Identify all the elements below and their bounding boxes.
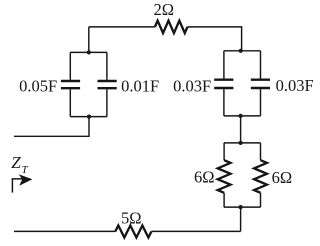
wire: 6Ω bank top rail — [224, 142, 261, 144]
resistor 2Ω (top, horizontal zigzag) — [155, 21, 188, 33]
wire: left capacitor bank top node up to top rail — [88, 27, 90, 53]
resistor R1 6Ω (left, vertical zigzag) — [218, 143, 231, 207]
wire: bottom rail right segment — [151, 230, 240, 232]
wire: left capacitor bank bottom rail — [70, 116, 107, 118]
svg-text:6Ω: 6Ω — [194, 168, 215, 187]
wire: 6Ω bank bottom rail — [224, 206, 261, 208]
impedance arrow for Z_T — [12, 179, 23, 193]
capacitor C2 0.01F (left bank, right branch) — [98, 52, 117, 116]
wire: right capacitor bank top rail — [224, 50, 261, 52]
wire: top rail right segment down to right capacitor bank — [188, 27, 242, 51]
junction node: 6Ω bank bottom — [239, 205, 243, 209]
junction node: 6Ω bank top — [239, 141, 243, 145]
svg-text:0.03F: 0.03F — [276, 76, 314, 95]
wire: top rail left segment — [89, 26, 155, 28]
wire: right capacitor bank bottom rail — [224, 115, 261, 117]
svg-text:2Ω: 2Ω — [153, 0, 174, 19]
junction node: right bank top — [239, 49, 243, 53]
svg-text:5Ω: 5Ω — [121, 208, 142, 227]
capacitor C3 0.03F (right bank, left branch) — [214, 51, 233, 116]
capacitor C1 0.05F (left bank, left branch) — [61, 52, 80, 116]
wire: 6Ω bank bottom node down to bottom rail — [240, 207, 242, 231]
svg-text:0.03F: 0.03F — [173, 77, 211, 96]
junction node: left bank bottom — [87, 115, 91, 119]
resistor R2 6Ω (right, vertical zigzag) — [254, 143, 267, 207]
svg-text:ZT: ZT — [11, 153, 28, 176]
resistor R3 5Ω (bottom, horizontal zigzag) — [115, 226, 151, 238]
wire: left capacitor bank top rail — [70, 51, 107, 53]
wire: bottom rail left segment to open terminal — [14, 230, 115, 232]
wire: right capacitor bank bottom node down to 6Ω bank top node — [240, 116, 242, 143]
capacitor C4 0.03F (right bank, right branch) — [251, 51, 270, 116]
arrowhead of impedance arrow — [19, 174, 33, 186]
junction node: left bank top — [87, 50, 91, 54]
svg-text:0.05F: 0.05F — [19, 77, 57, 96]
svg-text:6Ω: 6Ω — [272, 168, 293, 187]
svg-text:0.01F: 0.01F — [121, 77, 159, 96]
wire: top-left open terminal to left capacitor bank bottom node — [14, 117, 89, 137]
junction node: right bank bottom — [239, 114, 243, 118]
